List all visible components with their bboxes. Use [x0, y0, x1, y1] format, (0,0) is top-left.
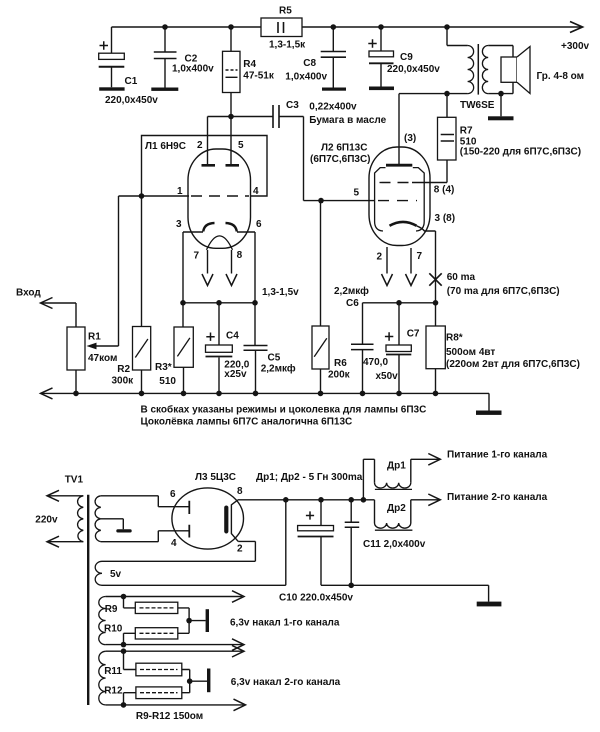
ground under C8 — [322, 88, 346, 91]
tube Л2 control grid dashed (pin 5) — [378, 200, 417, 202]
svg-text:R10: R10 — [104, 624, 123, 635]
svg-text:3 (8): 3 (8) — [435, 213, 456, 224]
choke Др1 — [363, 454, 440, 500]
transformer TV1 core — [87, 495, 89, 705]
resistor R4 — [223, 27, 241, 117]
svg-text:2: 2 — [197, 140, 203, 151]
wire speaker to ground — [500, 94, 502, 117]
resistor R8 — [426, 303, 445, 394]
svg-text:60 ma: 60 ma — [447, 272, 476, 283]
transformer TV1 6.3v winding 1 — [99, 597, 106, 645]
svg-text:x50v: x50v — [376, 371, 399, 382]
wire cathode bus Л1 — [183, 302, 255, 304]
wire screen grid to R7 — [412, 182, 447, 184]
svg-text:C7: C7 — [407, 329, 420, 340]
node grid/R6 junction — [318, 198, 324, 204]
wire input with arrow (Вход) — [41, 303, 76, 327]
node R9/R10 center tap dot — [186, 618, 192, 624]
tube Л1 heater dome — [207, 236, 233, 250]
svg-text:(150-220 для 6П7С,6П3С): (150-220 для 6П7С,6П3С) — [460, 147, 581, 158]
wire heater line 1b with arrow — [106, 644, 242, 646]
tube Л2 screen grid dashed (pin 8) — [380, 182, 413, 184]
svg-text:R11: R11 — [104, 666, 122, 677]
svg-text:(6П7С,6П3С): (6П7С,6П3С) — [310, 154, 371, 165]
node B+ rail dots — [318, 497, 366, 503]
svg-text:0,22x400v: 0,22x400v — [309, 102, 357, 113]
wire heater line 2a with arrow — [106, 650, 242, 652]
svg-text:2: 2 — [377, 251, 383, 262]
svg-text:6: 6 — [256, 219, 262, 230]
svg-text:Бумага в масле: Бумага в масле — [309, 115, 386, 126]
ground under C9 — [369, 87, 394, 91]
arrow +300v right end — [570, 22, 583, 33]
ground HV center tap bar — [116, 529, 131, 532]
ground under C2 — [151, 88, 178, 91]
node rail junction dots — [162, 24, 450, 30]
node heater winding 1 dots — [121, 594, 127, 648]
svg-text:1,0x400v: 1,0x400v — [172, 63, 214, 74]
tube Л1 grid dashed line — [191, 195, 249, 197]
wire HV bottom lead to anode 4 — [101, 531, 190, 542]
svg-text:8: 8 — [237, 250, 243, 261]
capacitor C9 — [368, 27, 393, 87]
capacitor C7 — [385, 303, 411, 394]
svg-text:R6: R6 — [334, 358, 347, 369]
svg-text:1,3-1,5v: 1,3-1,5v — [262, 287, 299, 298]
svg-text:1: 1 — [177, 186, 183, 197]
node ground bus dots — [73, 391, 438, 397]
tube Л2 anode plate — [386, 164, 412, 167]
wire cathode bus Л2 — [363, 302, 436, 304]
svg-text:220,0x450v: 220,0x450v — [387, 64, 440, 75]
wire B+ rail — [286, 499, 375, 501]
svg-text:Др1: Др1 — [387, 461, 406, 472]
svg-text:+300v: +300v — [561, 41, 590, 52]
wire heater pin 2 of Л2 with arrow — [386, 247, 388, 274]
resistor R9 — [124, 597, 190, 621]
svg-text:R5: R5 — [279, 6, 292, 17]
svg-text:8 (4): 8 (4) — [434, 185, 455, 196]
node speaker/secondary junction — [498, 91, 504, 97]
node primary bottom junction — [444, 91, 450, 97]
capacitor C11 — [345, 500, 360, 586]
wire cathode exits Л1 — [183, 232, 255, 303]
tube Л2 envelope — [369, 147, 430, 246]
capacitor C6 — [351, 303, 374, 394]
svg-text:TW6SE: TW6SE — [460, 100, 495, 111]
svg-text:Питание 2-го канала: Питание 2-го канала — [447, 492, 548, 503]
transformer TV1 6.3v winding 2 — [99, 651, 106, 705]
svg-text:1,0x400v: 1,0x400v — [285, 72, 327, 83]
wire plate lead Л2 — [398, 94, 400, 164]
choke Др2 — [375, 494, 441, 530]
resistor R2 — [133, 196, 151, 393]
wire 220v leads with arrows — [48, 496, 84, 542]
svg-text:TV1: TV1 — [65, 475, 84, 486]
wire 5v top lead — [102, 560, 255, 562]
resistor R3 — [174, 303, 193, 394]
capacitor C5 — [244, 303, 268, 394]
svg-text:Питание 1-го канала: Питание 1-го канала — [447, 450, 548, 461]
node B+ takeoff dot — [283, 497, 289, 503]
svg-text:С6: С6 — [346, 298, 359, 309]
svg-text:5: 5 — [238, 140, 244, 151]
transformer TV1 5v winding — [95, 561, 102, 585]
tube Л3 envelope — [172, 488, 244, 549]
wire heater pin 7 with arrow — [207, 250, 209, 274]
resistor R10 — [124, 621, 190, 645]
wire heater line 2b with arrow — [106, 704, 244, 706]
svg-text:2,2мкф: 2,2мкф — [261, 363, 296, 375]
svg-text:(70 ma для 6П7С,6П3С): (70 ma для 6П7С,6П3С) — [447, 286, 560, 297]
svg-text:x25v: x25v — [224, 369, 247, 380]
ground under C1 — [99, 87, 124, 90]
svg-text:R1: R1 — [88, 331, 101, 342]
svg-text:220,0x450v: 220,0x450v — [105, 95, 158, 106]
capacitor C2 — [154, 27, 177, 88]
node R4/C3 junction — [228, 114, 234, 120]
svg-text:47-51к: 47-51к — [243, 70, 275, 81]
wire bottom ground bus to chassis — [321, 585, 489, 601]
resistor R11 — [124, 651, 190, 681]
node grid junction Л1 — [139, 193, 145, 199]
resistor R12 — [124, 681, 190, 705]
svg-text:R7: R7 — [460, 126, 473, 137]
wire heater pin 8 with arrow — [231, 250, 233, 274]
wire plate of Л2 to primary — [399, 94, 447, 118]
svg-text:Гр. 4-8 ом: Гр. 4-8 ом — [537, 71, 585, 82]
svg-text:C3: C3 — [286, 100, 299, 111]
svg-text:C8: C8 — [303, 58, 316, 69]
svg-text:5v: 5v — [110, 569, 122, 580]
resistor R5 — [261, 18, 302, 37]
svg-text:3: 3 — [176, 219, 182, 230]
tube Л2 beam shield contour — [375, 168, 425, 231]
svg-text:(3): (3) — [404, 133, 416, 144]
svg-text:5: 5 — [354, 188, 360, 199]
svg-text:2,2мкф: 2,2мкф — [334, 285, 369, 297]
svg-text:Вход: Вход — [16, 287, 41, 298]
speaker Гр. 4-8 ом — [501, 47, 530, 94]
wire grid bus box Л1 (pins 1,4) — [119, 136, 268, 197]
ground chassis bar bottom — [477, 602, 502, 607]
svg-text:1,3-1,5к: 1,3-1,5к — [269, 40, 306, 51]
svg-text:В скобках указаны режимы и цок: В скобках указаны режимы и цоколевка для… — [141, 404, 427, 416]
wire HV center tap to chassis — [101, 519, 124, 530]
svg-text:C9: C9 — [400, 52, 413, 63]
svg-text:R12: R12 — [104, 686, 123, 697]
transformer TW6SE secondary winding — [482, 46, 513, 94]
svg-text:C4: C4 — [226, 330, 239, 341]
node R11/R12 center tap dot — [187, 678, 193, 684]
wire center tap to chassis bar 2 — [190, 680, 207, 682]
capacitor C1 — [99, 27, 125, 87]
svg-text:6: 6 — [170, 489, 176, 500]
svg-text:R9-R12 150ом: R9-R12 150ом — [136, 711, 203, 722]
wire heater pin 7 of Л2 with arrow — [410, 248, 412, 274]
ground main bus chassis bar — [476, 411, 502, 415]
ground under TW6SE — [488, 116, 514, 120]
wire cathode exit Л2 (pin 3) — [417, 226, 436, 303]
svg-text:8: 8 — [237, 486, 243, 497]
svg-text:200к: 200к — [328, 369, 351, 380]
node C11 ground dot — [348, 583, 354, 589]
svg-text:C5: C5 — [268, 353, 281, 364]
wire HV top lead to anode 6 — [101, 496, 190, 507]
svg-text:500ом 4вт: 500ом 4вт — [446, 347, 495, 358]
svg-text:6,3v накал 2-го канала: 6,3v накал 2-го канала — [231, 677, 341, 688]
svg-text:Др1; Др2 - 5 Гн 300ma: Др1; Др2 - 5 Гн 300ma — [256, 472, 363, 483]
node cathode bus dots — [180, 300, 258, 306]
svg-text:510: 510 — [159, 376, 176, 387]
tube Л1 anode plates pins 2,5 — [202, 164, 240, 167]
ground chassis T-bar 2 — [207, 669, 210, 693]
svg-text:6,3v накал 1-го канала: 6,3v накал 1-го канала — [230, 618, 340, 629]
tube Л1 envelope — [188, 149, 251, 248]
tube Л3 filament cathode capsule — [224, 506, 228, 534]
wire +300v top rail — [112, 26, 583, 28]
capacitor C8 — [321, 27, 346, 88]
svg-text:300к: 300к — [112, 375, 135, 386]
current point X 60 ma — [429, 273, 441, 285]
tube Л3 anode bars pins 6,4 — [188, 501, 190, 538]
svg-text:R3*: R3* — [155, 362, 172, 373]
svg-text:R8*: R8* — [446, 333, 463, 344]
node cathode bus Л2 dots — [396, 300, 438, 306]
ground chassis T-bar 1 — [206, 609, 209, 632]
resistor R6 — [312, 201, 329, 394]
svg-text:Л2 6П13С: Л2 6П13С — [321, 143, 367, 154]
svg-text:Цоколёвка лампы 6П7С аналогичн: Цоколёвка лампы 6П7С аналогична 6П13С — [141, 417, 353, 428]
wire pin 2 to 5v winding top — [238, 541, 255, 561]
svg-text:470,0: 470,0 — [363, 357, 388, 368]
capacitor C10 — [298, 500, 334, 586]
transformer TV1 primary 220v winding — [78, 496, 84, 542]
wire heater line 1a with arrow — [106, 596, 242, 598]
svg-text:R2: R2 — [117, 364, 130, 375]
svg-text:220v: 220v — [35, 515, 58, 526]
transformer TW6SE core — [477, 44, 479, 95]
resistor R7 — [438, 117, 457, 182]
svg-text:7: 7 — [194, 251, 200, 262]
svg-text:2: 2 — [237, 544, 243, 555]
wire pin 8 to B+ rail — [238, 499, 286, 501]
svg-text:(220ом 2вт для 6П7С,6П3С): (220ом 2вт для 6П7С,6П3С) — [446, 359, 580, 370]
wire plate bus Л1 — [208, 117, 274, 165]
tube Л3 filament lead line — [231, 500, 238, 542]
wire 5v bottom lead / B+ return — [102, 500, 286, 586]
tube Л2 cathode arc — [390, 222, 417, 226]
svg-text:C10 220.0x450v: C10 220.0x450v — [279, 593, 353, 604]
svg-text:Л1 6Н9С: Л1 6Н9С — [145, 141, 186, 152]
capacitor C3 — [273, 105, 321, 201]
svg-text:R4: R4 — [243, 59, 256, 70]
wire center tap to chassis bar 1 — [189, 620, 206, 622]
svg-text:С11 2,0x400v: С11 2,0x400v — [363, 539, 426, 550]
svg-text:Л3 5Ц3С: Л3 5Ц3С — [195, 472, 236, 483]
svg-text:C1: C1 — [125, 76, 138, 87]
svg-text:4: 4 — [253, 186, 259, 197]
potentiometer R1 — [67, 196, 119, 393]
capacitor C4 — [206, 303, 233, 394]
svg-text:4: 4 — [171, 538, 177, 549]
wire grid of Л2 from C3 — [321, 200, 375, 202]
svg-text:Др2: Др2 — [387, 503, 406, 514]
tube Л1 cathode hooks pins 3,6 — [203, 223, 237, 232]
svg-text:7: 7 — [417, 251, 423, 262]
wire ground bus with left arrow — [41, 393, 489, 410]
svg-text:R9: R9 — [105, 604, 118, 615]
svg-text:47ком: 47ком — [88, 353, 117, 364]
transformer TV1 HV secondary winding — [95, 496, 101, 542]
transformer TW6SE primary winding — [447, 27, 474, 94]
node heater winding 2 dots — [121, 648, 127, 707]
